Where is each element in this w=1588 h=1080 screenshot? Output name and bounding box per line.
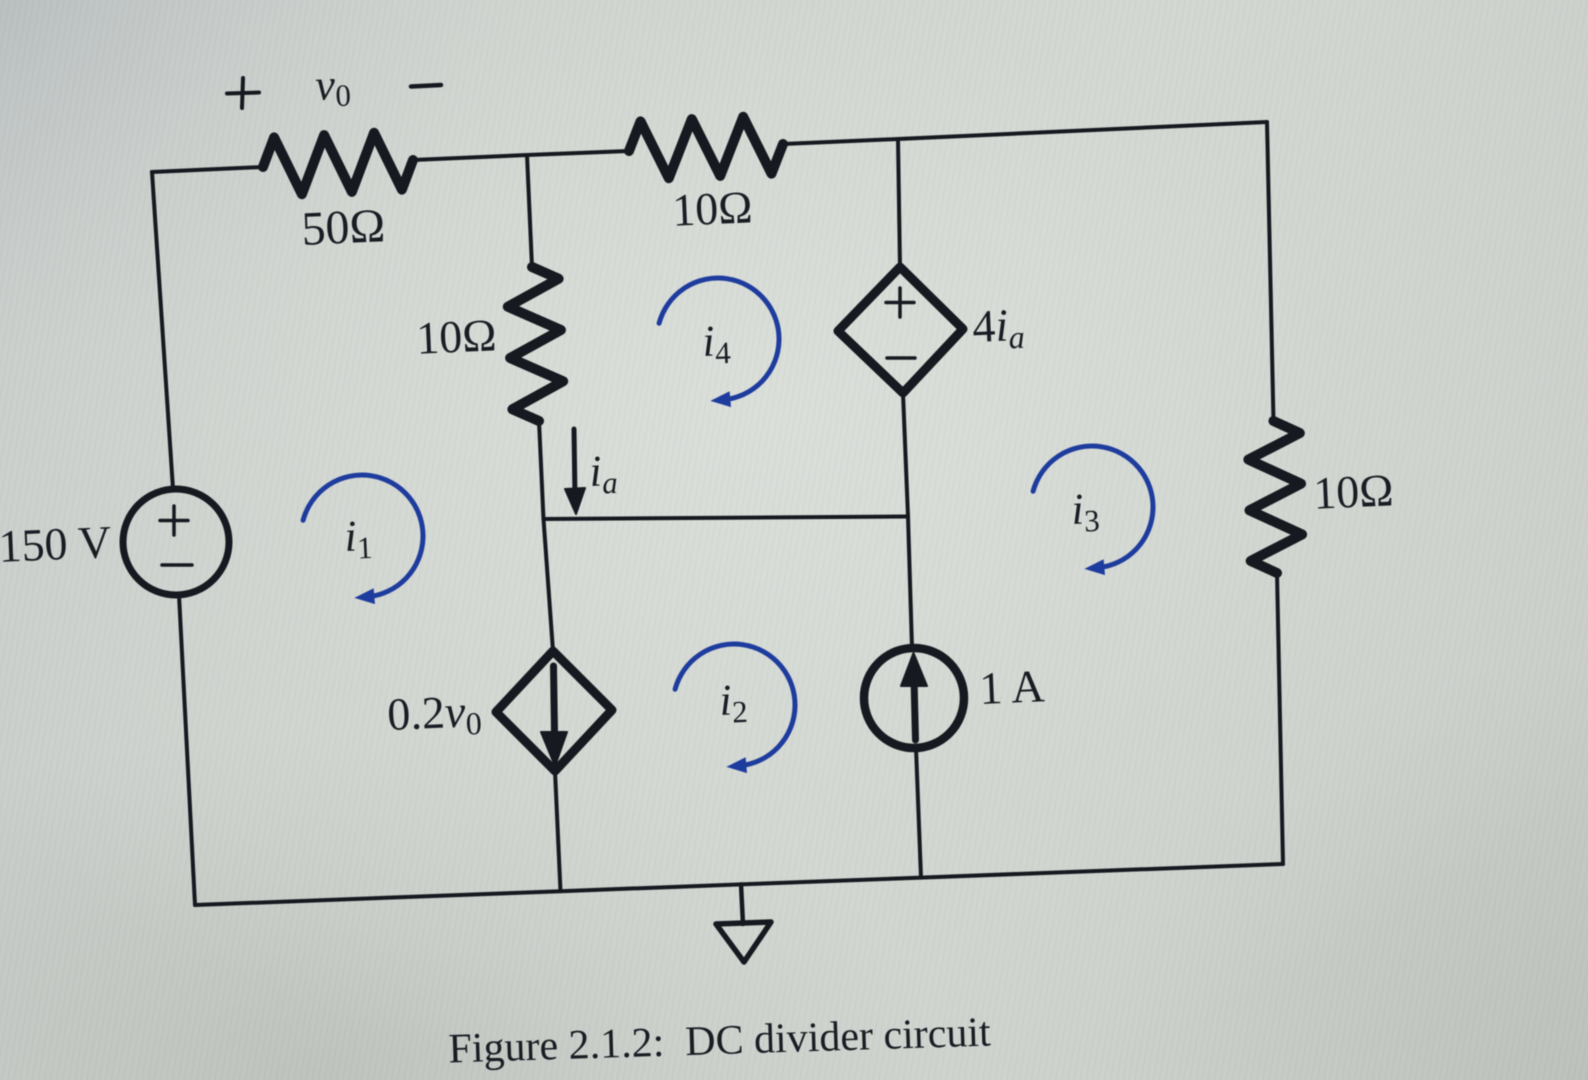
- voltage source V1 150V circle: [123, 489, 229, 595]
- svg-text:ia: ia: [588, 446, 618, 501]
- svg-text:0.2v0: 0.2v0: [386, 685, 482, 745]
- plus sign in 150V source: [160, 506, 188, 535]
- arrowhead i2: [726, 757, 747, 773]
- current source 1A circle: [864, 648, 964, 748]
- dependent current source 0.2v0 diamond: [496, 651, 612, 771]
- wire x2 1A to bottom rail: [916, 748, 921, 878]
- mesh loop i3: [1033, 446, 1153, 568]
- wire x2 diamond to mid rail: [903, 393, 908, 517]
- resistor R 10ohm right: [1248, 421, 1302, 573]
- arrowhead i4: [710, 391, 731, 407]
- arrowhead i3: [1084, 559, 1105, 575]
- minus sign in 4ia: [887, 356, 915, 360]
- wire left edge lower: [179, 595, 195, 905]
- wire x1 dep source to bottom rail: [555, 771, 561, 891]
- svg-text:10Ω: 10Ω: [1312, 464, 1394, 518]
- svg-text:i1: i1: [343, 511, 373, 566]
- wire left edge upper: [152, 172, 173, 489]
- ground stem: [741, 884, 743, 924]
- wire x1 column to mid rail: [539, 421, 544, 519]
- wire right edge lower: [1277, 573, 1283, 864]
- mesh current loops: [303, 278, 1153, 766]
- mesh loop i4: [659, 278, 779, 400]
- wire x2 top to diamond: [898, 139, 900, 267]
- svg-text:150 V: 150 V: [0, 516, 112, 572]
- resistor R 10ohm top: [629, 117, 783, 178]
- svg-text:50Ω: 50Ω: [300, 199, 386, 256]
- label plus of v0: [227, 78, 259, 108]
- arrow inside 1A: [914, 678, 916, 740]
- wire top rail right segment: [783, 122, 1267, 144]
- arrow inside 0.2v0: [554, 666, 555, 733]
- dependent voltage source 4ia diamond: [838, 267, 963, 393]
- svg-text:10Ω: 10Ω: [671, 181, 753, 235]
- wire right edge upper: [1267, 122, 1274, 421]
- svg-text:i3: i3: [1070, 484, 1100, 539]
- wire top rail mid segment: [413, 151, 629, 160]
- wire top rail left segment: [152, 167, 263, 172]
- mesh loop i2: [675, 644, 795, 766]
- wire mid rail: [544, 517, 909, 520]
- ground symbol triangle: [716, 922, 771, 962]
- resistor R 10ohm middle: [508, 267, 563, 421]
- svg-text:10Ω: 10Ω: [415, 309, 497, 363]
- wire x1 mid rail to dep source: [544, 519, 554, 651]
- wire bottom rail: [195, 864, 1283, 905]
- mesh loop i1: [303, 475, 423, 597]
- svg-text:1 A: 1 A: [978, 660, 1045, 714]
- svg-text:v0: v0: [314, 60, 351, 114]
- wire x2 mid rail to 1A: [908, 517, 912, 649]
- svg-text:i2: i2: [718, 675, 748, 730]
- plus sign in 4ia: [886, 288, 914, 317]
- resistor R 50ohm: [263, 133, 413, 194]
- label minus of v0: [411, 85, 441, 87]
- svg-text:4ia: 4ia: [971, 299, 1025, 357]
- svg-text:Figure 2.1.2: DC divider circ: Figure 2.1.2: DC divider circuit: [448, 1009, 992, 1072]
- svg-text:i4: i4: [701, 316, 732, 371]
- arrowhead i1: [354, 588, 375, 604]
- wire x1 column upper: [527, 155, 532, 267]
- current arrow ia: [574, 429, 575, 498]
- minus sign in 150V source: [162, 563, 192, 567]
